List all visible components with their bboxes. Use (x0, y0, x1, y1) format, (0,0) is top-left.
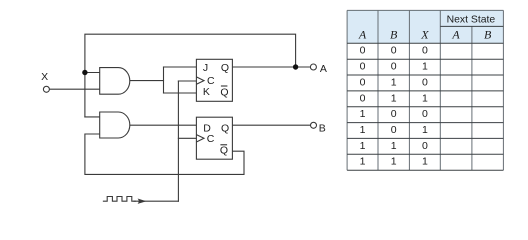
svg-text:0: 0 (422, 140, 428, 152)
svg-text:0: 0 (360, 76, 366, 88)
JK clock triangle (196, 77, 204, 84)
clock waveform symbol (103, 197, 135, 202)
svg-text:A: A (451, 28, 460, 42)
wire: G1 output (130, 80, 164, 82)
wire: clock to JK clock input (178, 80, 196, 82)
wire: X input to AND gate G1 input 2 (49, 88, 99, 90)
input terminal X (43, 86, 49, 92)
D flip-flop U2 box (196, 117, 232, 159)
svg-text:0: 0 (360, 92, 366, 104)
svg-text:J: J (203, 62, 208, 74)
svg-text:0: 0 (422, 45, 428, 57)
wire: JK Q output to node A (232, 66, 310, 68)
svg-text:0: 0 (360, 45, 366, 57)
junction dot: node A (293, 64, 298, 69)
svg-text:B: B (484, 28, 492, 42)
table data digits (360, 45, 428, 168)
svg-text:1: 1 (360, 108, 366, 120)
junction dot: feedback tap to G1 (82, 70, 87, 75)
svg-text:1: 1 (391, 156, 397, 168)
svg-text:1: 1 (391, 140, 397, 152)
output terminal B (311, 122, 317, 128)
svg-text:Next State: Next State (447, 15, 496, 26)
svg-text:0: 0 (422, 76, 428, 88)
AND gate G2 (100, 112, 130, 138)
JK flip-flop U1 box (196, 59, 232, 101)
wire: Q-bar feedback from D flip-flop to G2 input 2 (85, 134, 244, 174)
svg-text:1: 1 (422, 124, 428, 136)
svg-text:Q: Q (220, 87, 228, 99)
svg-text:0: 0 (391, 45, 397, 57)
svg-text:1: 1 (391, 76, 397, 88)
wire: vertical tying J and K inputs (163, 67, 165, 93)
svg-text:Q: Q (221, 62, 229, 74)
svg-text:X: X (420, 28, 429, 42)
wire: to J input (164, 66, 197, 68)
wire: feedback vertical to G2 input 1 (85, 116, 100, 118)
wire: clock to D clock input (178, 137, 196, 139)
svg-text:A: A (320, 63, 327, 75)
wire: to K input (164, 92, 197, 94)
svg-text:A: A (358, 28, 367, 42)
svg-text:0: 0 (391, 108, 397, 120)
svg-text:1: 1 (422, 92, 428, 104)
svg-text:Q: Q (221, 122, 229, 134)
svg-text:C: C (207, 133, 215, 145)
wire: feedback from node A (top run and left vertical) (85, 34, 296, 117)
svg-text:1: 1 (422, 156, 428, 168)
svg-text:1: 1 (391, 92, 397, 104)
svg-text:B: B (390, 28, 398, 42)
wire: AND gate G2 output to D input (130, 124, 197, 126)
wire: clock source line (134, 200, 178, 202)
D clock triangle (196, 135, 204, 142)
svg-text:1: 1 (360, 140, 366, 152)
AND gate G1 (100, 68, 130, 95)
svg-text:0: 0 (422, 108, 428, 120)
clock arrowhead (138, 199, 147, 204)
svg-text:0: 0 (391, 61, 397, 73)
svg-text:K: K (203, 86, 210, 98)
svg-text:X: X (41, 71, 48, 83)
svg-text:1: 1 (360, 124, 366, 136)
svg-text:0: 0 (360, 61, 366, 73)
output terminal A (310, 64, 316, 70)
truth table grid (347, 10, 503, 170)
wire: branch to AND gate G1 input 1 (85, 72, 100, 74)
truth table header shading (347, 10, 440, 43)
wire: D Q output to node B (232, 124, 310, 126)
svg-text:Q: Q (220, 144, 228, 156)
svg-text:B: B (319, 123, 326, 135)
wire: clock vertical (177, 81, 179, 201)
svg-text:1: 1 (422, 61, 428, 73)
svg-text:0: 0 (391, 124, 397, 136)
svg-text:1: 1 (360, 156, 366, 168)
